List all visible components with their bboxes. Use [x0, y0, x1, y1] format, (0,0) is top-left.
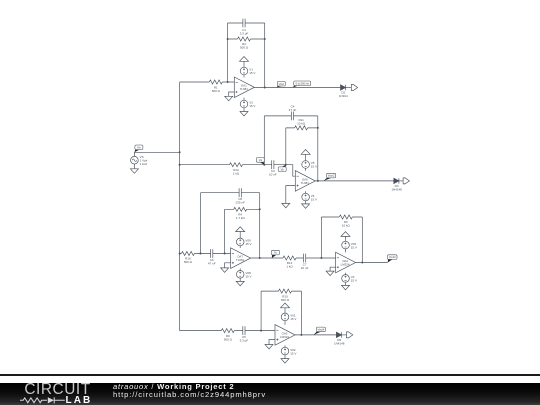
- voltage source V09: [236, 238, 244, 246]
- node junction bus/stage2: [179, 164, 181, 166]
- op-amp OA6: [295, 171, 315, 192]
- wire OA2 bottom to V4: [345, 273, 347, 275]
- ground below V08: [236, 281, 244, 286]
- wire stage1 output: [254, 87, 340, 89]
- wire V08 to ground: [239, 278, 241, 281]
- diode D2: [341, 85, 346, 90]
- resistor R4: [234, 207, 247, 211]
- node Vout flag: [277, 86, 283, 88]
- wire stage3 feedback inner top: [225, 208, 260, 210]
- wire OA3 plus to ground: [269, 340, 275, 345]
- op-amp OA3: [275, 325, 295, 346]
- wire op-amp bottom to V2: [243, 98, 245, 101]
- wire diode D4 to terminal: [399, 180, 403, 182]
- voltage source V08: [236, 271, 244, 279]
- wire stage3 feedback outer top: [201, 192, 260, 194]
- voltage source V6: [302, 193, 310, 201]
- wire R13 to C7: [296, 257, 336, 259]
- wire VS to ground: [133, 164, 135, 169]
- voltage source V5: [302, 161, 310, 169]
- ground at OA1 plus input: [225, 96, 233, 101]
- wire arrow to V01: [284, 308, 286, 314]
- node junction R1/feedback: [227, 81, 229, 83]
- power flag above V1: [240, 57, 249, 62]
- wire stage4 feedback top: [321, 216, 362, 218]
- wire OA7 bottom to V08: [239, 268, 241, 270]
- footer caption line 1: [113, 382, 234, 391]
- wire stage1 feedback left vertical: [227, 23, 229, 82]
- node flag Va: [259, 162, 264, 165]
- voltage source V03: [342, 241, 350, 249]
- wire stage3 feedback outer left: [200, 193, 202, 254]
- diode D5: [336, 332, 341, 337]
- wire main input bus: [179, 82, 181, 331]
- node junction output5/feedback: [300, 334, 302, 336]
- node Vout2 flag: [324, 178, 332, 181]
- voltage source V4: [342, 275, 350, 283]
- node junction output/feedback: [264, 87, 266, 89]
- wire OA3 bottom to V02: [284, 345, 286, 347]
- output terminal stage1: [351, 85, 357, 91]
- node junction output3/feedback: [259, 257, 261, 259]
- node Vout3 flag: [388, 259, 393, 262]
- capacitor C8: [239, 188, 241, 197]
- node junction C8 loop: [200, 253, 202, 255]
- node junction output2/feedback: [317, 180, 319, 182]
- wire source to bus: [134, 152, 179, 156]
- capacitor C3: [272, 160, 274, 169]
- ground below VS: [130, 169, 138, 174]
- wire stage5 feedback top: [261, 290, 301, 292]
- node Vin flag: [134, 149, 140, 152]
- wire arrow to V5: [305, 154, 307, 161]
- wire stage5 feedback right vertical: [300, 291, 302, 335]
- diode D4: [394, 178, 399, 183]
- node junction R11/right vertical: [317, 127, 319, 129]
- ground below V2: [240, 112, 248, 117]
- footer bar: [0, 383, 540, 405]
- resistor R3: [339, 215, 352, 219]
- wire V02 to ground: [284, 355, 286, 359]
- power flag above V01: [281, 303, 290, 308]
- wire OA6 plus to ground: [286, 186, 296, 204]
- wire stage2 feedback outer top: [264, 115, 318, 117]
- wire OA7 plus to ground: [225, 263, 231, 268]
- footer caption line 2: [113, 390, 266, 399]
- node flag Vb: [281, 165, 286, 168]
- wire stage5 output: [295, 334, 336, 336]
- wire diode D5 to terminal: [342, 334, 347, 336]
- resistor R12: [230, 163, 243, 167]
- capacitor C5: [243, 326, 245, 335]
- power flag above V5: [301, 150, 310, 155]
- wire V03 to op-amp: [345, 249, 347, 253]
- wire V5 to op-amp: [305, 168, 307, 171]
- op-amp OA1: [234, 77, 254, 98]
- node junction right R2: [264, 38, 266, 40]
- resistor R10: [279, 289, 292, 293]
- resistor R16: [181, 252, 194, 256]
- output terminal stage2: [403, 178, 409, 184]
- ground at OA2 plus input: [326, 271, 334, 276]
- resistor R9: [221, 329, 234, 333]
- op-amp OA7: [231, 248, 251, 269]
- wire stage2 feedback inner left: [285, 128, 287, 165]
- wire arrow to V09: [239, 231, 241, 238]
- wire stage4 feedback right vertical: [361, 217, 363, 263]
- wire V4 to ground: [345, 282, 347, 285]
- voltage source V2: [240, 100, 248, 108]
- resistor R2: [238, 37, 251, 41]
- wire stage1 input: [180, 81, 235, 83]
- wire stage1 feedback top: [228, 22, 265, 24]
- wire stage1 feedback right vertical: [264, 23, 266, 88]
- footer separator line: [0, 374, 540, 376]
- wire arrow to V03: [345, 236, 347, 241]
- ground below V4: [342, 285, 350, 290]
- wire stage2 feedback inner top: [286, 127, 318, 129]
- wire stage3 feedback right vertical: [259, 193, 261, 258]
- node frequency note flag: [293, 85, 299, 87]
- wire diode to terminal: [346, 87, 352, 89]
- wire stage1 feedback mid: [228, 38, 265, 40]
- wire stage3 input: [180, 253, 231, 255]
- wire stage2 feedback right vertical: [317, 116, 319, 181]
- node junction left R2: [227, 38, 229, 40]
- wire V01 to op-amp: [284, 321, 286, 325]
- wire V1 to op-amp: [243, 75, 245, 78]
- resistor R1: [209, 80, 222, 84]
- resistor R11: [295, 126, 308, 130]
- node junction R11 loop: [285, 164, 287, 166]
- wire OA2 plus to ground: [330, 267, 336, 271]
- ground at OA7 plus input: [221, 268, 229, 273]
- node junction C4 loop: [263, 164, 265, 166]
- CircuitLab logo text CIRCUIT: [24, 381, 90, 399]
- wire stage2 feedback outer left: [263, 116, 265, 165]
- wire stage3 feedback inner left: [224, 209, 226, 253]
- wire V09 to op-amp: [239, 246, 241, 248]
- wire V6 to ground: [305, 201, 307, 204]
- capacitor C4: [291, 112, 293, 121]
- node Vout4 flag: [314, 331, 322, 335]
- wire op-amp plus to ground: [229, 92, 235, 96]
- capacitor C7: [304, 254, 306, 263]
- wire stage5 input: [180, 330, 275, 332]
- node flag Vc: [272, 255, 277, 258]
- resistor R13: [283, 256, 296, 260]
- ground below V6: [302, 204, 310, 209]
- voltage source V1: [240, 67, 248, 75]
- wire stage4 feedback left vertical: [320, 217, 322, 258]
- voltage source V02: [281, 347, 289, 355]
- ground at OA6 plus input: [282, 203, 290, 208]
- output terminal stage5: [347, 332, 353, 338]
- capacitor C1: [243, 19, 245, 28]
- wire stage2 input: [180, 165, 296, 177]
- wire arrow to V1: [243, 61, 245, 67]
- wire stage3 output: [251, 257, 283, 259]
- wire stage2 output: [315, 180, 394, 182]
- power flag above V09: [236, 227, 245, 232]
- node junction R10 loop: [260, 330, 262, 332]
- node junction R4/right vertical: [259, 208, 261, 210]
- node junction output4/feedback: [361, 262, 363, 264]
- ground at OA3 plus input: [265, 345, 273, 350]
- ground below V02: [281, 359, 289, 364]
- capacitor C6: [211, 249, 213, 258]
- power flag above V03: [341, 232, 350, 237]
- wire stage4 output: [356, 262, 388, 264]
- wire stage5 feedback left vertical: [260, 291, 262, 331]
- wire V2 to ground: [243, 108, 245, 112]
- wire OA6 bottom to V6: [305, 191, 307, 193]
- node junction R3 loop: [320, 257, 322, 259]
- op-amp OA2: [336, 252, 356, 273]
- voltage source VS (sine): [131, 156, 139, 164]
- node junction bus/Vin: [179, 151, 181, 153]
- voltage source V01: [281, 313, 289, 321]
- node junction bus/stage3: [179, 253, 181, 255]
- node junction R4 loop: [224, 253, 226, 255]
